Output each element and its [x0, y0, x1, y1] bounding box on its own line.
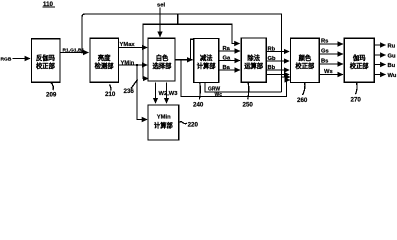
svg-text:反伽玛: 反伽玛 — [36, 53, 56, 62]
leader of 209 — [51, 82, 54, 90]
svg-text:Gs: Gs — [321, 49, 329, 55]
svg-text:Ra: Ra — [223, 46, 231, 52]
wire R1,G1,B1 from U1 to U2 — [60, 52, 88, 54]
wire Ga U4 to U5 — [219, 60, 240, 62]
svg-text:Gu: Gu — [388, 54, 397, 60]
wire L2 feedback from Ww node down to U6 — [181, 60, 290, 97]
svg-text:270: 270 — [351, 97, 362, 104]
wire Ws U6 to U7 — [319, 74, 343, 76]
svg-text:Bb: Bb — [268, 65, 276, 71]
label 260 — [297, 97, 308, 104]
label 250 — [243, 101, 254, 108]
svg-text:校正部: 校正部 — [295, 61, 315, 70]
svg-text:除法: 除法 — [247, 53, 260, 62]
wire bus A (R1G1B1 tap over the top to U6) — [82, 14, 282, 92]
wire Wr stub from U8 up into U3 — [155, 83, 157, 104]
box U2 luminance detector — [90, 38, 119, 82]
wire output Ru — [374, 44, 385, 46]
svg-text:检测部: 检测部 — [95, 61, 115, 70]
label 236 — [124, 88, 135, 95]
svg-text:亮度: 亮度 — [98, 53, 111, 62]
wire Wb U5 to U6 — [266, 74, 289, 76]
svg-text:Ba: Ba — [223, 65, 231, 71]
label 270 — [351, 97, 362, 104]
label 210 — [105, 91, 116, 98]
wire output Gu — [374, 54, 385, 56]
svg-text:运算部: 运算部 — [244, 61, 264, 70]
svg-text:Ws: Ws — [324, 69, 333, 75]
wire YMax U2 to U3 — [119, 47, 148, 49]
label 240 — [193, 101, 204, 108]
box U3 white selection — [148, 38, 175, 81]
svg-text:209: 209 — [46, 92, 57, 99]
box U5 division unit — [241, 38, 266, 82]
leader of 270 — [356, 82, 358, 94]
svg-text:Ru: Ru — [388, 44, 396, 50]
label 220 — [179, 122, 187, 124]
svg-text:YMin: YMin — [157, 115, 171, 121]
label Wc — [215, 92, 223, 98]
wire bridge between bus A and bus B — [177, 14, 179, 24]
junction dot R1G1B1 tap — [81, 51, 83, 53]
wire YMin U2 to U3 — [119, 64, 148, 66]
svg-text:Bs: Bs — [321, 59, 328, 65]
wire hook at U4 top-left — [190, 39, 193, 60]
label GRW — [208, 87, 220, 93]
wire Rs U6 to U7 — [319, 43, 343, 45]
leader of 210 — [110, 85, 111, 91]
svg-text:250: 250 — [243, 101, 254, 108]
leader of 236 — [131, 80, 138, 89]
wire Bb U5 to U6 — [266, 69, 289, 71]
junction dot Ww branch — [180, 59, 182, 61]
svg-text:选择部: 选择部 — [153, 61, 173, 70]
label RGB input — [1, 57, 12, 63]
svg-text:Rs: Rs — [321, 39, 328, 45]
wire Gb U5 to U6 — [266, 60, 289, 62]
box U7 gamma correction — [344, 38, 374, 82]
wire Gs U6 to U7 — [319, 53, 343, 55]
svg-text:减法: 减法 — [200, 53, 213, 62]
svg-text:Gb: Gb — [268, 56, 277, 62]
wire RGB arrow into U1 — [13, 58, 31, 60]
wire Ba U4 to U5 — [219, 69, 240, 71]
leader of 250 — [247, 82, 250, 99]
label 110 — [43, 1, 54, 8]
svg-text:白色: 白色 — [156, 53, 169, 62]
svg-text:Bu: Bu — [388, 63, 396, 69]
svg-text:计算部: 计算部 — [197, 61, 217, 70]
label Wr,Wb — [159, 91, 179, 97]
wire sel into U3 top — [159, 8, 161, 37]
leader of 260 — [303, 83, 305, 96]
svg-text:YMin: YMin — [121, 60, 135, 66]
svg-text:240: 240 — [193, 101, 204, 108]
wire Wb stub from U8 up into U3 — [166, 83, 168, 104]
svg-text:伽玛: 伽玛 — [353, 53, 366, 62]
arrow of bus B into U3 — [144, 78, 148, 80]
svg-text:W2,W3: W2,W3 — [159, 91, 179, 97]
wire output Bu — [374, 64, 385, 66]
svg-text:计算部: 计算部 — [154, 121, 174, 130]
wire Rb U5 to U6 — [266, 51, 289, 53]
svg-text:Ga: Ga — [223, 56, 232, 62]
wire 236 YMin branch down to U8 — [137, 65, 147, 120]
svg-text:YMax: YMax — [120, 42, 136, 48]
box U6 color correction — [291, 38, 320, 82]
box U4 subtraction calculator — [194, 39, 219, 83]
wire bus A entry into U6 — [282, 76, 291, 78]
svg-text:260: 260 — [297, 97, 308, 104]
underline of 110 — [43, 6, 56, 8]
svg-text:校正部: 校正部 — [350, 61, 370, 70]
wire Bs U6 to U7 — [319, 63, 343, 65]
svg-text:Rb: Rb — [268, 47, 276, 53]
label sel — [157, 2, 165, 8]
wire output Wu — [374, 74, 385, 76]
svg-text:210: 210 — [105, 91, 116, 98]
svg-text:sel: sel — [157, 2, 165, 8]
leader of 240 — [198, 83, 201, 100]
box U1 inverse gamma correction — [32, 39, 61, 83]
svg-text:颜色: 颜色 — [299, 53, 312, 62]
wire L1 GRW from U4 bottom to U6 — [205, 83, 282, 93]
svg-text:RGB: RGB — [1, 57, 12, 63]
wire Ww from U3 to U4 — [175, 59, 192, 61]
wire bus B (branch to U3 and U5) — [143, 24, 240, 78]
svg-text:236: 236 — [124, 88, 135, 95]
svg-text:220: 220 — [188, 121, 199, 128]
svg-text:校正部: 校正部 — [36, 61, 56, 70]
label 209 — [46, 92, 57, 99]
junction dot YMin branch — [136, 64, 138, 66]
box U8 YMin calculator — [148, 105, 179, 140]
svg-text:Wc: Wc — [215, 92, 223, 98]
wire Ra U4 to U5 — [219, 50, 240, 52]
svg-text:Wu: Wu — [388, 73, 397, 79]
